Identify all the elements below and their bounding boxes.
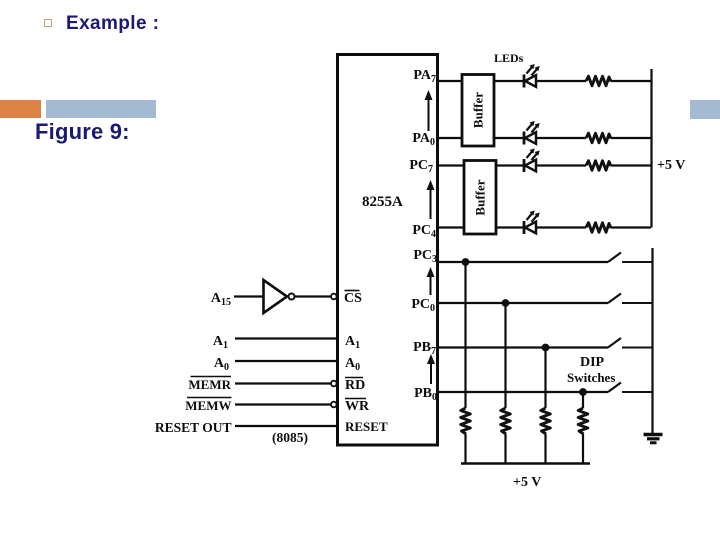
svg-text:DIP: DIP xyxy=(580,355,605,370)
svg-text:(8085): (8085) xyxy=(272,430,308,445)
svg-text:RESET: RESET xyxy=(345,419,388,434)
svg-text:RESET OUT: RESET OUT xyxy=(155,420,232,435)
svg-text:PA0: PA0 xyxy=(412,131,435,148)
svg-text:Switches: Switches xyxy=(567,370,615,385)
svg-text:PC7: PC7 xyxy=(409,158,433,175)
svg-text:PC0: PC0 xyxy=(411,297,435,314)
svg-text:PB7: PB7 xyxy=(413,340,436,357)
svg-text:MEMW: MEMW xyxy=(185,398,231,413)
svg-text:Buffer: Buffer xyxy=(473,179,488,215)
svg-text:PC3: PC3 xyxy=(413,248,437,265)
svg-text:CS: CS xyxy=(344,291,362,306)
svg-text:A1: A1 xyxy=(345,334,360,351)
svg-text:Buffer: Buffer xyxy=(471,92,486,128)
svg-text:WR: WR xyxy=(345,399,370,414)
svg-text:A0: A0 xyxy=(214,356,229,373)
svg-text:+5 V: +5 V xyxy=(657,158,685,173)
svg-text:MEMR: MEMR xyxy=(188,377,231,392)
svg-text:PC4: PC4 xyxy=(412,223,436,240)
svg-text:8255A: 8255A xyxy=(362,194,403,210)
svg-text:PA7: PA7 xyxy=(413,68,436,85)
svg-text:RD: RD xyxy=(345,378,365,393)
svg-text:A1: A1 xyxy=(213,334,228,351)
svg-text:+5 V: +5 V xyxy=(513,475,541,490)
svg-text:A15: A15 xyxy=(211,291,231,308)
svg-text:PB0: PB0 xyxy=(414,386,437,403)
svg-text:A0: A0 xyxy=(345,356,360,373)
svg-text:LEDs: LEDs xyxy=(494,51,524,65)
